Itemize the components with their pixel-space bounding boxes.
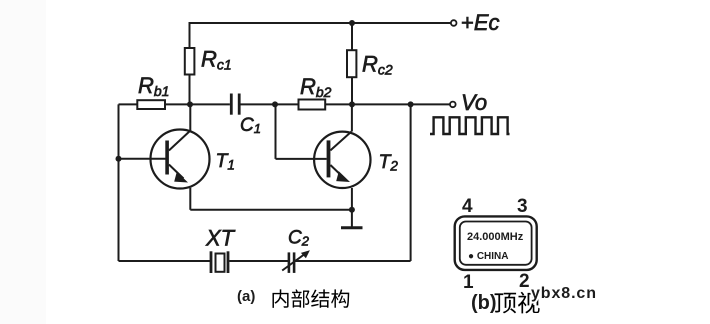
svg-text:4: 4 bbox=[462, 196, 473, 217]
svg-text:(b): (b) bbox=[471, 292, 497, 314]
svg-text:3: 3 bbox=[517, 196, 528, 217]
svg-text:(a): (a) bbox=[237, 288, 255, 305]
svg-text:1: 1 bbox=[463, 272, 474, 293]
svg-text:24.000MHz: 24.000MHz bbox=[467, 231, 524, 243]
svg-text:2: 2 bbox=[519, 271, 530, 292]
svg-text:+Ec: +Ec bbox=[461, 10, 500, 35]
svg-text:Vo: Vo bbox=[461, 90, 487, 115]
svg-text:XT: XT bbox=[205, 226, 236, 251]
svg-text:ybx8.cn: ybx8.cn bbox=[531, 285, 596, 302]
svg-text:● CHINA: ● CHINA bbox=[468, 251, 508, 262]
